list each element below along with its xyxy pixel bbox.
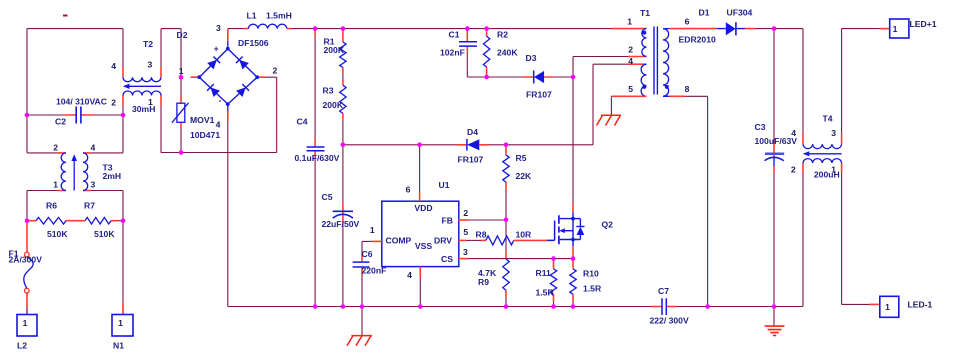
wire Q2 drain up — [572, 57, 574, 204]
svg-text:1: 1 — [893, 24, 898, 34]
wire ground bus — [228, 306, 803, 308]
svg-text:10D471: 10D471 — [190, 130, 220, 140]
svg-text:5: 5 — [463, 227, 468, 237]
svg-text:1: 1 — [627, 16, 632, 26]
svg-text:D3: D3 — [526, 53, 537, 63]
svg-text:+: + — [214, 43, 219, 53]
svg-text:200K: 200K — [323, 100, 344, 110]
svg-text:30mH: 30mH — [132, 104, 155, 114]
mosfet Q2 — [547, 203, 613, 259]
wire VDD pin6 — [419, 145, 421, 192]
svg-text:4: 4 — [111, 61, 116, 71]
varistor MOV1 10D471 — [172, 30, 221, 140]
inductor T4 200uH — [791, 114, 842, 180]
diode D1 UF304 — [694, 7, 774, 35]
resistor R10 1.5R — [570, 259, 602, 307]
inductor L1 1.5mH — [244, 10, 291, 28]
ic U1 — [370, 180, 469, 280]
wire T4 pin1 to LED- — [842, 173, 869, 304]
svg-text:1.5R: 1.5R — [536, 288, 555, 298]
svg-text:MOV1: MOV1 — [190, 115, 215, 125]
connector LED-1 — [880, 296, 933, 317]
capacitor C4 0.1uF/630V — [295, 29, 340, 307]
capacitor C5 22uF/50V — [322, 145, 360, 307]
svg-text:510K: 510K — [94, 229, 115, 239]
svg-text:3: 3 — [463, 247, 468, 257]
svg-text:1.5R: 1.5R — [583, 284, 602, 294]
svg-text:L2: L2 — [17, 340, 27, 350]
svg-text:2: 2 — [53, 143, 58, 153]
svg-text:222/ 300V: 222/ 300V — [650, 316, 689, 326]
svg-text:8: 8 — [685, 84, 690, 94]
svg-text:N1: N1 — [113, 340, 124, 350]
svg-text:C2: C2 — [55, 116, 66, 126]
svg-text:R7: R7 — [84, 201, 95, 211]
wire T4 pin3 to LED+ — [842, 29, 880, 134]
ground earth — [765, 307, 785, 336]
svg-text:5: 5 — [628, 84, 633, 94]
wire T1 pin4 feedback — [506, 64, 628, 145]
diode D3 FR107 — [523, 53, 553, 100]
connector L2 — [17, 315, 37, 351]
wire left rail lower — [26, 191, 28, 221]
wire right rail lower to N1 — [122, 191, 124, 316]
svg-text:EDR2010: EDR2010 — [679, 35, 716, 45]
capacitor C6 220nF — [353, 249, 387, 306]
resistor R7 510K — [79, 201, 117, 239]
svg-text:4: 4 — [91, 143, 96, 153]
svg-text:FR107: FR107 — [458, 155, 484, 165]
wire FB pin2 — [458, 219, 468, 221]
wire top right to T4 — [774, 29, 803, 134]
svg-text:D4: D4 — [467, 127, 478, 137]
svg-text:DRV: DRV — [434, 235, 452, 245]
svg-text:102nF: 102nF — [440, 47, 465, 57]
wire T2 right rail — [161, 29, 181, 153]
connector N1 — [112, 315, 133, 351]
wire D2 AC1 vertical — [180, 29, 182, 153]
resistor R1 200K — [324, 29, 347, 68]
svg-text:200uH: 200uH — [814, 169, 840, 179]
svg-text:3: 3 — [91, 180, 96, 190]
svg-text:L1: L1 — [247, 10, 257, 20]
svg-text:2: 2 — [791, 165, 796, 175]
wire T1 pin2 — [573, 56, 628, 58]
capacitor C3 100uF/63V — [755, 29, 798, 307]
svg-text:1: 1 — [885, 302, 890, 312]
svg-text:220nF: 220nF — [362, 266, 387, 276]
diode D4 FR107 — [457, 127, 506, 165]
svg-text:T4: T4 — [823, 114, 833, 124]
svg-text:2A/300V: 2A/300V — [9, 255, 43, 265]
svg-text:C3: C3 — [755, 122, 766, 132]
svg-text:FB: FB — [442, 216, 453, 226]
capacitor C7 222/300V — [650, 286, 689, 326]
svg-text:2: 2 — [111, 98, 116, 108]
wire COMP pin1 — [372, 240, 382, 242]
svg-text:R9: R9 — [478, 277, 489, 287]
svg-text:3: 3 — [148, 60, 153, 70]
resistor R11 1.5R — [536, 259, 557, 307]
svg-text:CS: CS — [441, 254, 453, 264]
svg-text:R10: R10 — [583, 269, 599, 279]
svg-text:1: 1 — [370, 225, 375, 235]
wire VDD row — [343, 144, 457, 146]
svg-text:R3: R3 — [323, 86, 334, 96]
svg-text:22K: 22K — [516, 171, 533, 181]
svg-text:2: 2 — [463, 208, 468, 218]
wire between R6 R7 — [72, 220, 79, 222]
svg-text:200K: 200K — [324, 45, 345, 55]
svg-text:VDD: VDD — [414, 203, 432, 213]
wire CS pin3 — [458, 258, 468, 260]
wire AC2 rail — [161, 77, 277, 152]
wire FB to CS vertical — [505, 220, 507, 251]
svg-text:6: 6 — [406, 185, 411, 195]
svg-text:4: 4 — [216, 119, 221, 129]
fuse F1 2A/300V — [9, 221, 43, 315]
svg-text:R5: R5 — [516, 153, 527, 163]
svg-text:LED+1: LED+1 — [910, 19, 937, 29]
svg-text:1: 1 — [118, 318, 123, 328]
svg-text:1: 1 — [179, 66, 184, 76]
wire right rail upper — [122, 29, 124, 153]
resistor R8 10R — [458, 230, 547, 245]
svg-text:2mH: 2mH — [103, 171, 122, 181]
svg-text:U1: U1 — [439, 180, 450, 190]
svg-text:3: 3 — [831, 128, 836, 138]
svg-text:240K: 240K — [497, 47, 518, 57]
svg-text:510K: 510K — [47, 229, 68, 239]
resistor R3 200K — [323, 85, 347, 145]
svg-text:4: 4 — [628, 56, 633, 66]
svg-text:LED-1: LED-1 — [908, 300, 933, 310]
svg-text:6: 6 — [685, 16, 690, 26]
svg-text:1: 1 — [23, 318, 28, 328]
svg-text:R2: R2 — [497, 29, 508, 39]
wire top loop — [27, 29, 123, 153]
capacitor C2 — [55, 96, 107, 126]
svg-text:22uF/50V: 22uF/50V — [322, 219, 360, 229]
svg-text:C4: C4 — [297, 117, 308, 127]
svg-text:C6: C6 — [362, 249, 373, 259]
bridge rectifier D2 DF1506 — [179, 23, 278, 129]
wire C2 row — [27, 114, 123, 116]
no-erc marker — [63, 15, 68, 17]
svg-text:FR107: FR107 — [526, 90, 552, 100]
svg-text:10R: 10R — [516, 230, 533, 240]
wire top rail — [228, 28, 612, 30]
svg-text:T2: T2 — [143, 39, 153, 49]
wire R1-R3 link — [342, 68, 344, 86]
svg-text:T1: T1 — [640, 8, 650, 18]
connector LED+1 — [890, 19, 937, 38]
svg-text:-: - — [219, 95, 222, 105]
svg-text:R6: R6 — [46, 201, 57, 211]
transformer T1 EDR2010 — [612, 8, 716, 96]
wire R7 to rail — [117, 220, 123, 222]
wire pin4 — [419, 267, 421, 278]
svg-text:0.1uF/630V: 0.1uF/630V — [295, 153, 340, 163]
svg-text:4: 4 — [791, 128, 796, 138]
inductor T2 30mH — [111, 39, 161, 114]
svg-text:UF304: UF304 — [727, 7, 753, 17]
wire T1 pin8 return — [669, 95, 685, 97]
svg-text:3: 3 — [216, 23, 221, 33]
ground chassis T1 pin5 — [597, 115, 621, 125]
svg-text:COMP: COMP — [386, 236, 412, 246]
resistor R2 240K — [483, 29, 518, 77]
resistor R6 510K — [29, 201, 72, 239]
svg-text:2: 2 — [628, 45, 633, 55]
svg-text:104/ 310VAC: 104/ 310VAC — [56, 96, 107, 106]
wire bridge minus to bus — [227, 121, 229, 307]
svg-text:R11: R11 — [536, 268, 552, 278]
svg-text:C7: C7 — [658, 286, 669, 296]
wire T4 pin2 to bus — [802, 173, 804, 307]
resistor R9 4.7K — [478, 259, 509, 307]
svg-text:4: 4 — [407, 270, 412, 280]
ground chassis COMP — [347, 307, 372, 346]
svg-text:Q2: Q2 — [602, 219, 614, 229]
svg-text:C1: C1 — [449, 29, 460, 39]
transformer T3 2mH — [27, 143, 123, 191]
wire T1 pin5 — [611, 95, 646, 97]
svg-text:1.5mH: 1.5mH — [266, 10, 292, 20]
wire T1 pin6 — [669, 28, 694, 30]
svg-text:VSS: VSS — [415, 241, 432, 251]
svg-text:D1: D1 — [699, 7, 710, 17]
capacitor C1 102nF — [440, 29, 477, 77]
svg-text:DF1506: DF1506 — [238, 38, 269, 48]
resistor R5 22K — [503, 145, 532, 220]
svg-text:R8: R8 — [476, 230, 487, 240]
wire snubber row — [467, 76, 573, 78]
svg-text:D2: D2 — [177, 30, 188, 40]
svg-text:C5: C5 — [322, 192, 333, 202]
svg-text:1: 1 — [53, 180, 58, 190]
svg-text:2: 2 — [273, 65, 278, 75]
